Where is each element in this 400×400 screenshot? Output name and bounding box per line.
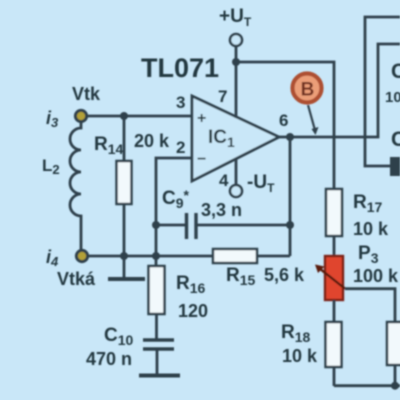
- junction node A (R14 top tap): [120, 112, 128, 120]
- terminal i4 (Vtka): [76, 250, 87, 261]
- wire pin 4 to -UT terminal: [235, 158, 238, 185]
- junction (ground tap): [120, 252, 128, 260]
- inductor L2: [70, 122, 81, 250]
- junction (+UT rail tap): [232, 58, 240, 66]
- node B marker: [293, 74, 322, 103]
- svg-text:−: −: [197, 151, 206, 168]
- svg-text:3,3 n: 3,3 n: [201, 200, 242, 220]
- capacitor C10: [143, 340, 174, 374]
- resistor R18: [326, 322, 342, 367]
- terminal -UT: [230, 185, 242, 197]
- wire to upper-right connector: [365, 17, 400, 166]
- svg-text:Vtk: Vtk: [72, 84, 101, 104]
- resistor R17: [326, 189, 342, 236]
- resistor R15: [156, 249, 290, 263]
- wire +UT rail to R17: [236, 62, 334, 189]
- junction (bottom rail): [391, 382, 399, 390]
- op-amp IC1 TL071: [192, 96, 279, 181]
- wire R17 to P3: [333, 236, 336, 256]
- wire wiper tap: [345, 289, 395, 322]
- junction (output node): [286, 133, 294, 141]
- svg-text:5,6 k: 5,6 k: [264, 265, 305, 285]
- capacitor C9: [156, 213, 290, 239]
- terminal i3 (Vtk): [75, 110, 86, 121]
- wire i3 terminal to op-amp pin 3: [86, 115, 192, 118]
- resistor R16: [149, 266, 165, 339]
- svg-text:3: 3: [176, 93, 185, 112]
- resistor R14: [117, 116, 132, 256]
- svg-text:120: 120: [178, 301, 208, 321]
- svg-text:7: 7: [218, 87, 227, 106]
- terminal +UT: [230, 34, 242, 46]
- potentiometer P3: [315, 256, 345, 300]
- wire i4 terminal to inverting node: [87, 255, 156, 258]
- resistor R19 (clipped at edge): [387, 322, 400, 365]
- node B pointer: [308, 105, 319, 135]
- junction (R15 tap): [152, 252, 160, 260]
- svg-text:B: B: [301, 79, 315, 100]
- svg-text:2: 2: [176, 138, 185, 157]
- svg-text:Vtká: Vtká: [57, 269, 96, 289]
- wire R19 to bottom rail: [394, 365, 397, 386]
- wire feedback vertical: [289, 137, 292, 256]
- wire pin 2 to inverting node: [156, 158, 192, 266]
- wire P3 to R18: [333, 300, 336, 322]
- wire bottom rail: [334, 384, 400, 387]
- svg-text:10 k: 10 k: [282, 346, 318, 366]
- svg-text:10 k: 10 k: [353, 219, 389, 239]
- junction (C9 tap): [152, 221, 160, 229]
- wire R18 to bottom rail: [333, 367, 336, 386]
- svg-text:+: +: [197, 110, 206, 127]
- ground stub: [123, 256, 126, 277]
- ground: [108, 277, 145, 281]
- connector (edge, filled): [390, 157, 400, 176]
- ground: [139, 374, 180, 378]
- wire pin 7 to +UT terminal: [235, 46, 238, 118]
- svg-text:100 k: 100 k: [353, 266, 399, 286]
- svg-text:470 n: 470 n: [86, 349, 132, 369]
- svg-text:6: 6: [279, 111, 288, 130]
- svg-text:4: 4: [219, 171, 229, 190]
- svg-text:10: 10: [385, 89, 400, 106]
- svg-text:C: C: [391, 60, 400, 83]
- junction (feedback C9 node): [286, 221, 294, 229]
- svg-text:20 k: 20 k: [134, 131, 170, 151]
- svg-text:TL071: TL071: [141, 53, 219, 83]
- wire output pin 6: [279, 44, 400, 137]
- svg-text:C: C: [391, 128, 400, 151]
